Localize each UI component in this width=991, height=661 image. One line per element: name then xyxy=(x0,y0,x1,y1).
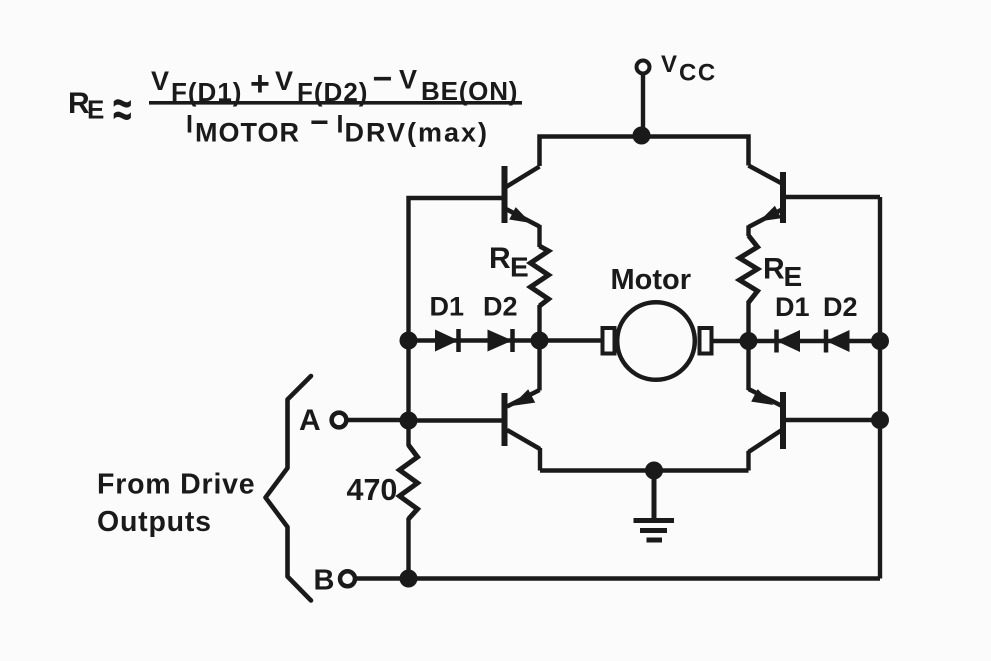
terminal VCC xyxy=(637,61,650,74)
svg-text:+: + xyxy=(250,65,270,103)
transistor Q3 lower-left PNP xyxy=(505,389,541,449)
wire Q4 base lead xyxy=(786,418,880,422)
wire Q3 base lead xyxy=(409,418,502,422)
wire bottom rail xyxy=(540,468,749,473)
formula numerator V_F(D1) + V_F(D2) - V_BE(ON) xyxy=(151,60,518,107)
svg-text:I: I xyxy=(186,111,193,139)
transistor Q4 lower-right PNP xyxy=(749,389,784,452)
transistor Q2 upper-right NPN xyxy=(749,166,784,228)
wire Q3 collector to bottom rail xyxy=(538,448,542,471)
ground xyxy=(634,471,675,541)
node RE right junction xyxy=(740,332,758,350)
svg-text:MOTOR: MOTOR xyxy=(195,118,300,148)
svg-text:D2: D2 xyxy=(823,292,858,322)
svg-text:V: V xyxy=(151,66,169,96)
node motor left junction xyxy=(531,332,549,350)
svg-text:A: A xyxy=(299,404,321,437)
fraction bar xyxy=(149,101,522,105)
diode D2 left xyxy=(488,329,513,352)
svg-text:V: V xyxy=(399,65,417,95)
formula RE label xyxy=(68,87,104,125)
transistor Q1 upper-left NPN xyxy=(505,166,540,227)
wire A to node xyxy=(348,418,409,422)
svg-text:≈: ≈ xyxy=(113,81,132,139)
svg-text:B: B xyxy=(314,565,335,597)
wire Q4 emitter to node xyxy=(746,341,750,390)
svg-text:DRV(max): DRV(max) xyxy=(345,118,490,148)
resistor 470 xyxy=(400,445,418,519)
label From Drive Outputs xyxy=(97,469,255,539)
wire B rail xyxy=(356,576,880,580)
formula denominator I_MOTOR - I_DRV(max) xyxy=(186,104,489,148)
wire Q1 base lead and left vertical xyxy=(409,198,502,446)
node right rail junction xyxy=(871,332,889,350)
terminal B xyxy=(340,571,355,586)
wire Q2 emitter to RE right xyxy=(746,226,750,237)
svg-text:I: I xyxy=(337,111,344,139)
label RE left xyxy=(489,242,529,283)
svg-text:E: E xyxy=(510,252,529,283)
wire VCC to top rail xyxy=(641,74,645,137)
wire right vertical xyxy=(878,197,882,579)
wire Q3 emitter to motor node xyxy=(537,341,541,391)
svg-text:D1: D1 xyxy=(775,292,810,322)
svg-text:470: 470 xyxy=(347,473,398,507)
svg-text:CC: CC xyxy=(679,60,717,87)
node A junction xyxy=(400,412,418,430)
wire RE right to node xyxy=(746,301,750,341)
node left rail junction xyxy=(400,332,418,350)
terminal A xyxy=(332,413,347,428)
diode D2 right xyxy=(826,330,850,353)
wire right middle rail xyxy=(712,339,880,344)
svg-text:−: − xyxy=(310,104,329,140)
svg-text:From Drive: From Drive xyxy=(97,469,255,501)
label RE right xyxy=(763,253,802,293)
svg-text:R: R xyxy=(489,242,511,275)
wire RE left to node xyxy=(537,305,541,341)
wire top rail xyxy=(540,137,749,167)
node ground junction xyxy=(645,462,663,480)
wire Q1 emitter to RE left xyxy=(537,225,541,247)
resistor RE left xyxy=(531,246,549,306)
svg-text:E: E xyxy=(784,261,803,292)
node B junction xyxy=(400,570,418,588)
resistor RE right xyxy=(740,236,758,303)
wire Q4 collector to bottom rail xyxy=(746,451,750,471)
wire left middle rail xyxy=(409,338,602,343)
wire 470 to B rail xyxy=(406,518,410,579)
node top rail junction xyxy=(633,127,651,145)
svg-text:Motor: Motor xyxy=(611,264,692,296)
brace from drive outputs xyxy=(266,376,312,601)
diode D1 right xyxy=(777,330,801,353)
node right base junction xyxy=(871,411,889,429)
svg-text:D2: D2 xyxy=(483,292,518,322)
diode D1 left xyxy=(435,329,459,352)
motor M1 xyxy=(603,302,712,380)
svg-text:E: E xyxy=(87,95,104,125)
svg-text:R: R xyxy=(763,253,785,286)
svg-text:V: V xyxy=(275,66,293,96)
svg-text:Outputs: Outputs xyxy=(97,506,212,538)
svg-text:−: − xyxy=(373,60,393,98)
svg-text:D1: D1 xyxy=(430,292,465,322)
wire Q2 base lead xyxy=(786,195,880,199)
svg-text:V: V xyxy=(661,51,677,78)
label VCC xyxy=(661,51,717,87)
